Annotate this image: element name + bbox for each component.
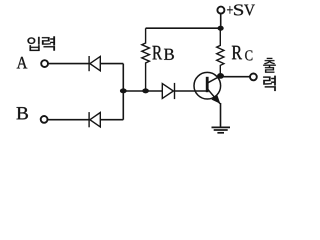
node junction J1	[120, 88, 127, 93]
wire output	[221, 76, 251, 78]
wire emitter to ground	[220, 103, 222, 128]
transistor Q1	[194, 72, 221, 103]
label 출력 (output)	[263, 58, 276, 91]
wire D2 to bus	[100, 119, 123, 121]
label B	[17, 107, 28, 119]
label A	[17, 57, 28, 69]
label 입력 (input)	[27, 36, 55, 51]
node collector	[217, 73, 224, 79]
wire D1 to node	[100, 63, 123, 65]
wire B to D2	[47, 119, 89, 121]
terminal A	[41, 60, 48, 67]
node junction J3	[218, 26, 224, 31]
wire +5V stub	[220, 13, 222, 28]
label RB	[152, 46, 173, 60]
wire vertical bus	[122, 64, 124, 120]
ground	[212, 127, 231, 132]
label RC	[232, 46, 253, 61]
wire A to D1	[48, 63, 89, 65]
terminal B	[41, 116, 48, 123]
diode D2	[89, 112, 100, 127]
wire top rail	[146, 27, 221, 29]
wire base	[123, 90, 162, 92]
diode D3	[162, 83, 174, 99]
resistor RC	[217, 28, 224, 76]
terminal output	[250, 74, 257, 81]
wire D3 to base	[175, 90, 208, 92]
label +5V	[227, 4, 255, 15]
diode D1	[89, 56, 100, 71]
resistor RB	[142, 28, 150, 91]
node junction J2	[142, 88, 149, 93]
terminal +5V	[217, 7, 224, 14]
